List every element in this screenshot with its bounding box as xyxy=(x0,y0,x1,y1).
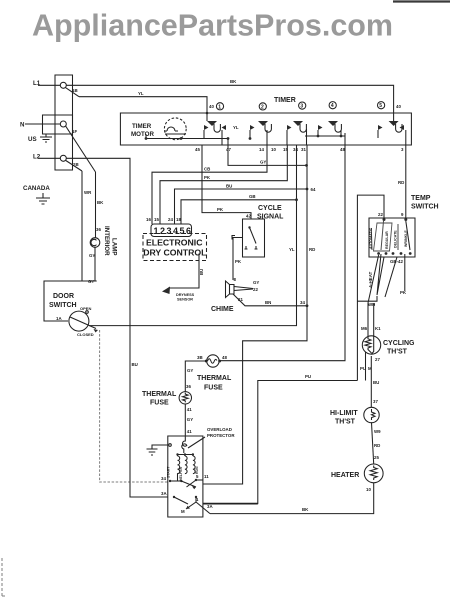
svg-text:WRINKLE: WRINKLE xyxy=(404,230,408,247)
wire L1 lead-in xyxy=(38,84,60,86)
wire timer 14 CB to pin 16 xyxy=(152,145,267,224)
cycling thermostat xyxy=(362,336,380,354)
wire L2 to BU drop xyxy=(66,158,130,162)
temp switch V wires below xyxy=(377,254,384,295)
svg-text:3A: 3A xyxy=(161,491,167,496)
svg-text:41: 41 xyxy=(187,429,192,434)
cycle signal switch blade xyxy=(250,228,257,244)
svg-text:45: 45 xyxy=(195,147,200,152)
svg-text:11: 11 xyxy=(204,474,209,479)
svg-text:CHIME: CHIME xyxy=(211,306,234,313)
svg-text:TIMER: TIMER xyxy=(132,123,152,130)
svg-text:BU: BU xyxy=(373,380,379,385)
svg-text:BN: BN xyxy=(265,300,271,305)
motor box xyxy=(168,436,203,517)
svg-text:TH'ST: TH'ST xyxy=(335,419,356,426)
svg-text:2B: 2B xyxy=(73,162,79,167)
svg-text:1: 1 xyxy=(196,497,199,502)
svg-text:DELICATE: DELICATE xyxy=(394,230,398,248)
wire timer 31 riser to motor xyxy=(203,145,307,484)
terminal N xyxy=(60,121,66,127)
svg-text:BK: BK xyxy=(97,200,104,205)
motor winding bus xyxy=(178,455,193,457)
svg-text:BK: BK xyxy=(230,79,237,84)
wire dryness sensor xyxy=(168,254,199,289)
svg-text:M6: M6 xyxy=(361,326,368,331)
svg-text:RD: RD xyxy=(309,247,315,252)
timer internal bus xyxy=(146,134,228,139)
svg-text:L2: L2 xyxy=(33,154,41,161)
wire motor run exit to riser xyxy=(203,381,358,504)
svg-text:START: START xyxy=(167,466,171,478)
svg-text:FUSE: FUSE xyxy=(150,400,169,407)
svg-text:OPEN: OPEN xyxy=(80,306,91,311)
svg-text:YL: YL xyxy=(233,125,239,130)
wire L1 top bus (BK) to timer contact 5 xyxy=(66,85,393,122)
svg-text:3: 3 xyxy=(300,104,303,110)
svg-text:1F: 1F xyxy=(72,129,77,134)
svg-text:18: 18 xyxy=(176,217,181,222)
timer cam 2 xyxy=(259,103,266,110)
svg-text:47: 47 xyxy=(226,147,231,152)
svg-text:40: 40 xyxy=(396,104,401,109)
svg-text:36: 36 xyxy=(96,227,101,232)
svg-text:123456: 123456 xyxy=(154,226,193,236)
svg-text:DRY CONTROL: DRY CONTROL xyxy=(143,248,207,258)
timer contact group 3 xyxy=(287,121,307,145)
wire lower fuse to motor xyxy=(184,404,186,436)
svg-text:64: 64 xyxy=(311,187,316,192)
wire timer 45 PK to cycle signal xyxy=(202,145,251,219)
svg-text:DRYNESS: DRYNESS xyxy=(176,293,195,297)
ground motor xyxy=(152,445,168,449)
wire motor to heater BK xyxy=(196,502,210,514)
svg-text:5: 5 xyxy=(379,103,382,109)
svg-text:GY: GY xyxy=(260,160,266,165)
timer box xyxy=(120,113,411,145)
svg-text:8: 8 xyxy=(234,277,237,282)
svg-text:SWITCH: SWITCH xyxy=(49,302,77,309)
chime speaker xyxy=(226,277,237,298)
timer cam 5 xyxy=(378,102,385,109)
wire timer 34 PK to pin 15 xyxy=(160,145,287,224)
wire timer 3 RD to temp switch xyxy=(405,145,407,218)
svg-text:15: 15 xyxy=(154,217,159,222)
svg-text:1: 1 xyxy=(218,104,221,110)
svg-text:24: 24 xyxy=(168,217,173,222)
wire cycling to hi-limit xyxy=(370,356,372,408)
heater xyxy=(364,464,383,483)
svg-text:CYCLING: CYCLING xyxy=(383,340,415,347)
wire N slant to lamp line xyxy=(66,126,96,172)
overload callout line xyxy=(188,437,205,448)
svg-text:1A: 1A xyxy=(56,316,62,321)
svg-text:LAMP: LAMP xyxy=(111,238,118,256)
motor switch arm 3A xyxy=(173,496,175,498)
svg-text:36: 36 xyxy=(186,384,191,389)
svg-text:PU: PU xyxy=(305,374,311,379)
motor bottom contact xyxy=(195,496,197,498)
cycle signal left stub xyxy=(233,238,243,281)
svg-text:MOTOR: MOTOR xyxy=(131,131,154,138)
terminal block xyxy=(55,75,73,170)
cycle signal box xyxy=(243,219,265,257)
svg-text:US: US xyxy=(28,136,37,143)
svg-text:27: 27 xyxy=(375,357,380,362)
wire timer 48 to thermal fuse xyxy=(219,145,345,361)
motor switch arm 34 xyxy=(169,480,171,482)
wire door switch lower dashed xyxy=(100,330,168,482)
svg-text:RUN: RUN xyxy=(195,466,199,474)
wire WH branch to temp V point xyxy=(357,296,377,301)
svg-text:YL: YL xyxy=(138,91,144,96)
svg-text:W9: W9 xyxy=(374,429,381,434)
door switch contact xyxy=(69,311,89,331)
interior lamp xyxy=(90,238,100,248)
svg-text:PROTECTOR: PROTECTOR xyxy=(207,433,235,438)
svg-text:25: 25 xyxy=(374,455,379,460)
svg-text:TEMP: TEMP xyxy=(411,195,431,202)
overload protector coil xyxy=(182,436,187,453)
svg-text:HEATER: HEATER xyxy=(331,472,359,479)
svg-text:10: 10 xyxy=(366,487,371,492)
svg-text:WH: WH xyxy=(368,302,375,307)
wire L2 slant to WR xyxy=(66,161,82,172)
svg-text:4: 4 xyxy=(331,103,334,109)
timer motor xyxy=(164,118,186,140)
svg-text:PK: PK xyxy=(400,290,407,295)
wire L1 slant to YL xyxy=(66,88,80,97)
wire thermal fuses left leg xyxy=(185,361,206,392)
dryness sensor arrow xyxy=(162,287,170,295)
wire door switch to right riser xyxy=(89,145,297,326)
svg-text:31: 31 xyxy=(301,147,306,152)
svg-text:ELECTRONIC: ELECTRONIC xyxy=(146,238,203,248)
cycle signal contacts xyxy=(245,246,248,249)
svg-text:3B: 3B xyxy=(197,355,203,360)
svg-text:N: N xyxy=(20,122,25,129)
wire hi-limit to heater xyxy=(372,423,374,464)
svg-text:GY: GY xyxy=(187,417,193,422)
svg-text:TIMER: TIMER xyxy=(274,97,296,104)
wire BU pin 24 to riser junction xyxy=(175,189,308,224)
door switch box xyxy=(44,281,97,321)
door switch blade xyxy=(70,317,96,329)
electronic dry control box xyxy=(143,234,207,261)
svg-text:3A: 3A xyxy=(207,504,213,509)
ground CANADA xyxy=(36,193,50,204)
svg-text:BU: BU xyxy=(226,184,232,189)
svg-text:34: 34 xyxy=(300,300,305,305)
svg-text:37: 37 xyxy=(373,399,378,404)
svg-text:RD: RD xyxy=(374,443,380,448)
svg-text:INTERIOR: INTERIOR xyxy=(103,226,110,256)
svg-text:BU: BU xyxy=(132,362,138,367)
temp switch blades xyxy=(370,228,373,250)
svg-text:BU: BU xyxy=(199,269,204,275)
bottom left page edge dashed line xyxy=(1,558,3,597)
svg-text:40: 40 xyxy=(209,104,214,109)
svg-text:THERMAL: THERMAL xyxy=(142,391,177,398)
svg-text:21: 21 xyxy=(238,297,243,302)
svg-text:14: 14 xyxy=(259,147,264,152)
thermal fuse lower xyxy=(179,392,191,404)
timer contact group 1 xyxy=(204,121,226,145)
svg-text:M: M xyxy=(181,509,185,514)
wire N lead-in xyxy=(25,123,60,125)
svg-text:HELPER: HELPER xyxy=(179,466,183,481)
wire PU run to temp switch contact 22 xyxy=(357,195,384,380)
svg-text:BK: BK xyxy=(302,507,309,512)
svg-text:L1: L1 xyxy=(33,80,41,87)
timer cam 3 xyxy=(299,102,306,109)
timer 48 contact stub xyxy=(344,133,346,145)
motor windings xyxy=(178,456,180,481)
wire L2 lead-in xyxy=(38,157,60,159)
svg-text:GY: GY xyxy=(253,280,259,285)
svg-text:3: 3 xyxy=(401,147,404,152)
wire L2 BU long drop to motor xyxy=(130,162,168,497)
wire heater bottom BK to motor xyxy=(210,483,374,514)
svg-text:PK: PK xyxy=(217,207,224,212)
svg-text:1B: 1B xyxy=(72,88,78,93)
svg-text:FUSE: FUSE xyxy=(204,385,223,392)
svg-text:RD: RD xyxy=(398,180,404,185)
svg-text:THERMAL: THERMAL xyxy=(197,375,232,382)
svg-text:9: 9 xyxy=(401,212,404,217)
temp switch top contacts xyxy=(383,218,386,221)
timer cam 1 xyxy=(216,103,223,110)
svg-text:CANADA: CANADA xyxy=(23,185,50,192)
svg-text:SENSOR: SENSOR xyxy=(177,298,193,302)
wire chime 21 BN to riser xyxy=(233,294,307,306)
thermal fuse upper xyxy=(207,355,219,367)
svg-text:AUTOMATIC: AUTOMATIC xyxy=(369,227,373,249)
svg-text:CYCLE: CYCLE xyxy=(258,205,282,212)
svg-text:16: 16 xyxy=(146,217,151,222)
temp switch bottom contacts xyxy=(377,252,380,255)
wire WR down left side xyxy=(81,171,83,281)
svg-text:K1: K1 xyxy=(375,326,381,331)
svg-text:DOOR: DOOR xyxy=(53,293,74,300)
svg-text:HI-LIMIT: HI-LIMIT xyxy=(330,410,358,417)
svg-text:PK: PK xyxy=(235,259,242,264)
wire GY lamp to door switch xyxy=(94,247,96,281)
ground US xyxy=(40,134,52,142)
wire timer 47 GY jog xyxy=(228,145,307,165)
timer contact group 2 xyxy=(249,121,272,145)
svg-text:REGULAR: REGULAR xyxy=(385,231,389,249)
svg-text:TH'ST: TH'ST xyxy=(387,349,408,356)
svg-text:GY: GY xyxy=(89,253,95,258)
svg-text:SIGNAL: SIGNAL xyxy=(257,214,284,221)
svg-text:41: 41 xyxy=(187,407,192,412)
svg-text:GY: GY xyxy=(187,368,193,373)
svg-text:GB: GB xyxy=(249,194,256,199)
timer contact group 4 xyxy=(305,121,345,137)
svg-text:SWITCH: SWITCH xyxy=(411,204,439,211)
hi-limit thermostat xyxy=(364,407,379,422)
timer cam 4 xyxy=(329,102,336,109)
chime wires right xyxy=(234,287,253,289)
wire YL to timer contact 1 xyxy=(79,97,207,121)
svg-text:YL: YL xyxy=(289,247,295,252)
svg-text:2: 2 xyxy=(261,104,264,110)
wire BK lamp feed xyxy=(95,172,97,238)
keypad 123456 xyxy=(151,224,192,237)
top right page edge line xyxy=(393,0,450,2)
svg-text:48: 48 xyxy=(222,355,227,360)
svg-text:CB: CB xyxy=(204,167,210,172)
svg-text:42: 42 xyxy=(246,214,251,219)
temp switch box xyxy=(369,218,415,257)
svg-text:22: 22 xyxy=(253,287,258,292)
svg-text:OVERLOAD: OVERLOAD xyxy=(207,427,232,432)
terminal L1 xyxy=(60,82,66,88)
svg-text:CLOSED: CLOSED xyxy=(77,332,94,337)
wire GB pin 18 to riser junction xyxy=(181,200,297,224)
motor contact 5-11 exit xyxy=(195,479,197,481)
wire temp switch to cycling thermostat xyxy=(368,255,379,337)
svg-text:PK: PK xyxy=(204,175,211,180)
svg-text:34: 34 xyxy=(293,147,298,152)
temp switch inner frame xyxy=(374,223,393,251)
svg-text:10: 10 xyxy=(271,147,276,152)
neutral terminal box xyxy=(43,115,73,134)
timer contact group 5 xyxy=(378,121,406,145)
svg-text:WR: WR xyxy=(84,190,92,195)
svg-text:22: 22 xyxy=(378,212,383,217)
svg-text:GB-42: GB-42 xyxy=(390,259,403,264)
terminal L2 xyxy=(60,155,66,161)
svg-text:AppliancePartsPros.com: AppliancePartsPros.com xyxy=(32,9,393,43)
